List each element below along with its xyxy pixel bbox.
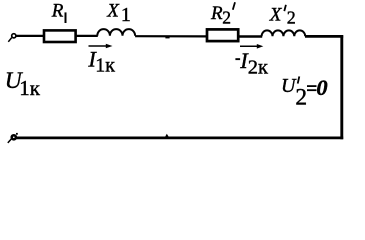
label R1 <box>51 1 67 24</box>
svg-text:R: R <box>210 3 223 24</box>
label U2'=0 <box>281 75 328 111</box>
svg-text:0: 0 <box>316 75 327 100</box>
wire: X2' to top-right corner <box>305 35 343 38</box>
wire: top-left segment to R1 <box>16 35 44 37</box>
label X2' <box>269 5 296 28</box>
junction mark on top wire <box>165 37 169 39</box>
resistor R1 <box>44 30 76 42</box>
wire: bottom return <box>14 137 343 140</box>
inductor X1 <box>97 29 135 36</box>
inductor X2' <box>262 30 306 36</box>
wire: right vertical <box>340 35 343 139</box>
wire: X1 to R2' <box>135 35 206 37</box>
wire: R1 to X1 <box>76 35 98 37</box>
arrow -I2k <box>240 44 263 49</box>
svg-text:2: 2 <box>295 85 307 111</box>
label U1k <box>5 68 41 100</box>
label I1k <box>87 46 115 76</box>
svg-text:R: R <box>51 1 64 22</box>
label R2' <box>210 2 235 27</box>
svg-text:1к: 1к <box>95 54 115 76</box>
resistor R2' <box>207 29 238 41</box>
svg-text:2: 2 <box>222 8 231 28</box>
junction mark on bottom wire <box>165 134 168 137</box>
wire: R2' to X2' <box>239 35 263 37</box>
terminal: bottom input <box>8 133 18 143</box>
terminal: top input <box>8 34 16 42</box>
svg-text:1к: 1к <box>19 76 41 100</box>
label X1 <box>106 1 131 27</box>
svg-text:1: 1 <box>121 4 131 26</box>
svg-text:2: 2 <box>287 8 296 28</box>
svg-text:2к: 2к <box>248 56 268 78</box>
svg-text:X: X <box>269 5 283 26</box>
svg-text:X: X <box>106 1 120 22</box>
label -I2k <box>235 48 268 78</box>
arrow I1k <box>89 44 113 49</box>
